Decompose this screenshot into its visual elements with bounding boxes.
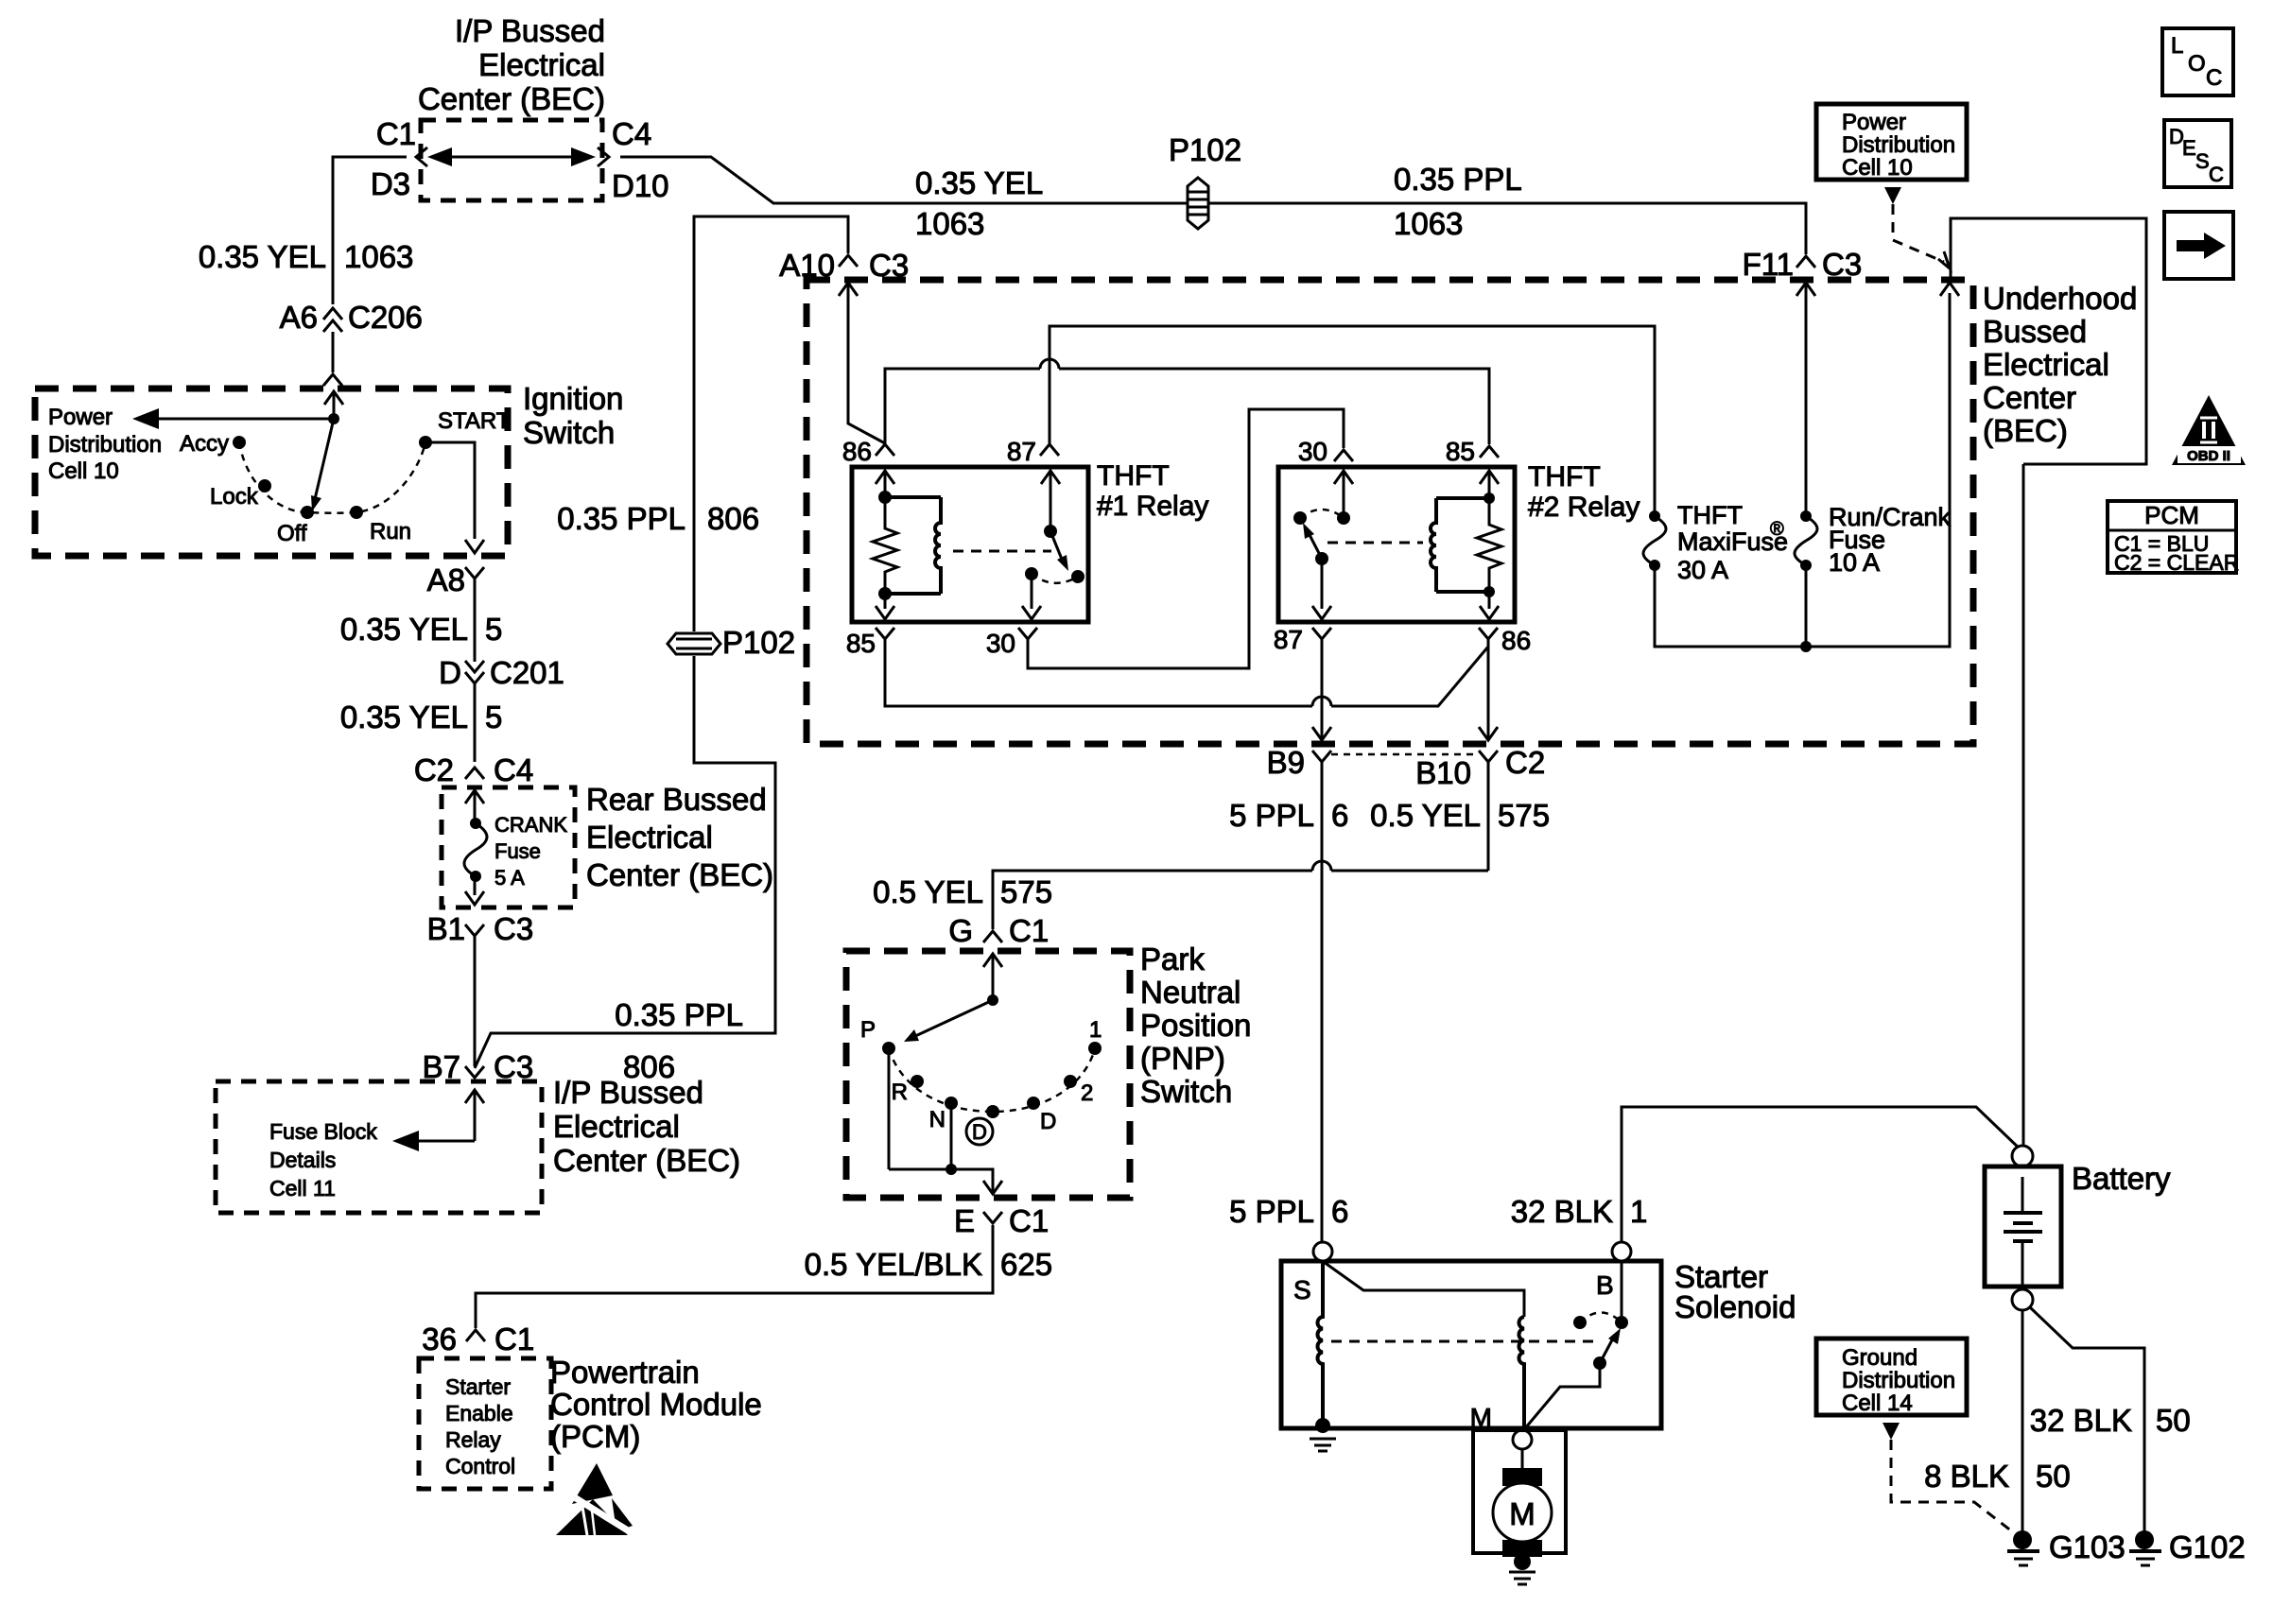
wire 0.35 PPL 806 branch from B7: [475, 656, 775, 1068]
connector A8 chevron: [465, 567, 484, 662]
wire label 32 BLK 50: [2030, 1403, 2191, 1438]
svg-text:575: 575: [1498, 798, 1550, 833]
relay1 switch arm: [1050, 531, 1068, 571]
relay2 bottom rail: [1436, 590, 1489, 594]
svg-text:Cell 11: Cell 11: [269, 1176, 336, 1201]
power distribution pointer triangle: [1884, 187, 1901, 204]
Fuse Block Details Cell 11 text: [269, 1119, 377, 1201]
F11 entry arrow: [1796, 283, 1815, 516]
solenoid B contact: [1615, 1316, 1628, 1329]
starter motor box: [1473, 1430, 1566, 1553]
relay2 pin30 internal arrow: [1334, 471, 1353, 518]
wire from D10 to F11 (0.35 YEL / 0.35 PPL 1063): [620, 157, 1806, 254]
connector B1/C3 chevron: [465, 924, 484, 1066]
ground G102: [2129, 1530, 2161, 1565]
connector B7/C3 chevron: [465, 1066, 484, 1078]
svg-text:Powertrain: Powertrain: [550, 1355, 700, 1390]
svg-text:P102: P102: [1169, 132, 1241, 167]
wire relay1 85 to relay2 86: [885, 639, 1488, 706]
connector G/C1 chevron: [983, 931, 1002, 942]
I/P Bussed Electrical Center box (top): [421, 120, 602, 200]
inline connector P102 (top): [1169, 132, 1241, 229]
connector E/C1 chevron: [983, 1212, 1002, 1223]
I/P Bussed Electrical Center box (lower): [216, 1081, 542, 1213]
I/P Bussed Electrical Center (BEC) title top: [418, 13, 605, 116]
relay1 pin87 internal arrow: [1041, 471, 1060, 531]
PNP switch label: [1140, 942, 1251, 1109]
svg-text:G102: G102: [2169, 1529, 2246, 1564]
motor M circle: [1493, 1483, 1552, 1542]
wire B10 to PNP switch G: [993, 762, 1488, 929]
svg-text:Electrical: Electrical: [478, 47, 605, 82]
entry arrow into lower I/P BEC: [465, 1090, 484, 1141]
svg-text:Control: Control: [445, 1454, 515, 1478]
svg-text:(PNP): (PNP): [1140, 1041, 1225, 1076]
connector C2/C4 chevron: [465, 768, 484, 779]
solenoid hold-in coil: [1518, 1317, 1524, 1431]
svg-text:Distribution: Distribution: [48, 432, 162, 458]
svg-text:6: 6: [1331, 1194, 1348, 1229]
chevron above ignition switch: [323, 374, 342, 386]
svg-text:Fuse: Fuse: [495, 839, 541, 863]
terminal M: [1513, 1430, 1532, 1449]
svg-text:Distribution: Distribution: [1842, 1368, 1955, 1393]
svg-text:Cell 14: Cell 14: [1842, 1391, 1913, 1416]
svg-text:E: E: [954, 1203, 975, 1238]
wire label 0.35 YEL 5: [340, 612, 503, 647]
svg-text:B7: B7: [423, 1049, 460, 1084]
svg-text:0.5 YEL: 0.5 YEL: [873, 874, 983, 909]
motor brushes: [1502, 1468, 1542, 1557]
svg-text:Starter: Starter: [445, 1374, 511, 1399]
contact Lock: [258, 479, 271, 492]
ESD symbol: [556, 1463, 635, 1535]
svg-text:Power: Power: [1842, 110, 1906, 135]
svg-text:C: C: [2209, 163, 2224, 186]
relay1 87 chevron: [1040, 444, 1059, 456]
svg-text:Off: Off: [277, 521, 307, 546]
relay2 pin87 internal arrow: [1312, 559, 1331, 619]
svg-text:575: 575: [1000, 874, 1052, 909]
svg-text:C206: C206: [348, 300, 423, 335]
relay2 contact dashed arc: [1300, 510, 1344, 518]
relay2 30 chevron: [1334, 450, 1353, 461]
svg-text:O: O: [2188, 51, 2206, 77]
Battery: [1985, 1146, 2061, 1310]
PNP output bus: [889, 1169, 993, 1193]
contact N: [945, 1097, 958, 1110]
LOC box: [2162, 28, 2233, 95]
wire battery to G103: [2021, 1310, 2024, 1531]
svg-text:D: D: [1040, 1109, 1056, 1134]
connector C206 double chevron: [323, 308, 342, 332]
svg-text:1: 1: [1630, 1194, 1647, 1229]
Starter Enable Relay Control text: [445, 1374, 515, 1478]
contact D2: [1027, 1097, 1040, 1110]
svg-text:C: C: [2206, 65, 2222, 91]
relay1 86 chevron: [876, 444, 894, 456]
svg-text:Enable: Enable: [445, 1401, 513, 1425]
svg-text:2: 2: [1081, 1080, 1093, 1106]
relay1 switch contact (to 30): [1025, 567, 1038, 580]
wire solenoid B to battery: [1622, 1107, 2022, 1242]
svg-text:Relay: Relay: [445, 1427, 501, 1452]
wire 0.5 YEL/BLK 625 from PNP E to PCM: [476, 1225, 993, 1328]
svg-text:Power: Power: [48, 405, 113, 430]
svg-text:1063: 1063: [1394, 206, 1463, 241]
svg-text:625: 625: [1000, 1247, 1052, 1282]
svg-text:OBD II: OBD II: [2187, 448, 2230, 464]
svg-text:0.35 YEL: 0.35 YEL: [340, 612, 468, 647]
svg-text:1063: 1063: [344, 239, 413, 274]
Underhood BEC dashed box: [807, 280, 1973, 744]
OBD II triangle: [2172, 395, 2246, 465]
wire relay2 87 to B9: [1312, 639, 1331, 740]
wire Run/Crank fuse to F11: [1805, 565, 1808, 647]
svg-text:5 PPL: 5 PPL: [1229, 1194, 1314, 1229]
svg-text:C1: C1: [1009, 913, 1049, 948]
solenoid pull-in coil: [1317, 1261, 1323, 1423]
svg-text:(PCM): (PCM): [550, 1419, 640, 1454]
svg-text:C1: C1: [495, 1322, 534, 1356]
wire label 8 BLK 50: [1924, 1459, 2071, 1494]
svg-text:S: S: [2195, 149, 2210, 173]
svg-text:I/P Bussed: I/P Bussed: [455, 13, 605, 48]
PNP pivot node: [987, 994, 998, 1006]
ground G103: [2007, 1530, 2039, 1565]
motor ground: [1509, 1553, 1536, 1584]
svg-text:Battery: Battery: [2072, 1161, 2171, 1196]
svg-text:30: 30: [986, 629, 1015, 658]
svg-text:THFT: THFT: [1528, 461, 1601, 492]
relay2 coil/resistor bottom node: [1484, 586, 1495, 597]
Run/Crank Fuse 10A: [1795, 503, 1952, 577]
svg-text:0.5 YEL: 0.5 YEL: [1370, 798, 1481, 833]
Underhood BEC label: [1983, 281, 2137, 448]
svg-text:1063: 1063: [915, 206, 984, 241]
PCM label: [550, 1355, 762, 1454]
THFT #1 Relay box: [852, 467, 1088, 622]
svg-text:C2: C2: [414, 752, 454, 787]
svg-text:P102: P102: [722, 625, 795, 660]
contact 1: [1088, 1042, 1102, 1055]
svg-text:G: G: [948, 913, 973, 948]
svg-text:50: 50: [2156, 1403, 2191, 1438]
Power Distribution Cell 10 box (top right): [1816, 104, 1967, 181]
svg-text:30 A: 30 A: [1677, 556, 1728, 584]
relay1 pin30 internal arrow: [1022, 574, 1041, 619]
contact Accy: [233, 436, 246, 449]
svg-text:G103: G103: [2049, 1529, 2126, 1564]
connector B9 chevron: [1312, 751, 1331, 762]
PCM connector legend box: [2108, 501, 2239, 575]
relay2 switch contact (arm rest): [1293, 511, 1307, 525]
svg-text:Center: Center: [1983, 380, 2076, 415]
circled D: [966, 1118, 993, 1145]
relay1 coil/resistor top node: [878, 491, 892, 504]
relay1 contact dashed arc: [1032, 574, 1078, 583]
junction node N output: [946, 1164, 957, 1175]
junction node fuse bus: [1800, 641, 1812, 652]
wire label 0.35 PPL 806 (upper): [557, 501, 759, 536]
solenoid contact dashed arc: [1580, 1313, 1622, 1323]
svg-text:Switch: Switch: [1140, 1074, 1232, 1109]
relay2 87 chevron: [1312, 628, 1331, 639]
svg-text:B10: B10: [1415, 755, 1471, 790]
svg-text:5: 5: [485, 612, 502, 647]
svg-text:32 BLK: 32 BLK: [1511, 1194, 1613, 1229]
contact D (overdrive): [986, 1105, 999, 1118]
svg-text:0.35 YEL: 0.35 YEL: [199, 239, 326, 274]
junction node ignition feed: [328, 413, 339, 424]
relay1 coil/resistor bottom node: [878, 587, 892, 600]
svg-text:Neutral: Neutral: [1140, 975, 1241, 1010]
svg-text:C1: C1: [1009, 1203, 1049, 1238]
motor feed wire: [1521, 1449, 1524, 1471]
connector A10/C3 chevron: [839, 255, 858, 267]
battery feed wire from BEC to battery: [2022, 464, 2025, 1146]
svg-text:N: N: [929, 1107, 946, 1132]
svg-text:85: 85: [1446, 437, 1475, 466]
svg-text:85: 85: [846, 629, 876, 658]
svg-text:50: 50: [2036, 1459, 2071, 1494]
contact P: [882, 1042, 895, 1055]
wire label 0.35 PPL 806 (lower): [615, 997, 743, 1084]
Ignition Switch label: [523, 381, 623, 450]
svg-text:8 BLK: 8 BLK: [1924, 1459, 2009, 1494]
Underhood BEC text frame: [1951, 218, 2146, 464]
svg-text:P: P: [860, 1017, 876, 1043]
relay1 bottom rail: [885, 592, 941, 596]
svg-text:86: 86: [1501, 626, 1531, 655]
svg-text:M: M: [1509, 1496, 1536, 1531]
connector dashed line B9-B10: [1331, 753, 1479, 756]
wire P contact down: [888, 1048, 891, 1169]
PNP contact arc (dashed): [889, 1048, 1095, 1112]
relay2 top rail: [1436, 496, 1489, 500]
svg-text:D3: D3: [371, 166, 410, 201]
CRANK fuse exit arrow: [465, 876, 484, 905]
wire relay2 86 to B10: [1479, 639, 1498, 740]
contact START: [419, 436, 432, 449]
wire label 5 PPL 6: [1229, 798, 1348, 833]
wire label 0.35 YEL 1063 (top): [915, 165, 1043, 241]
svg-text:I/P Bussed: I/P Bussed: [553, 1075, 703, 1110]
solenoid actuation dashed link: [1331, 1340, 1598, 1343]
connector C201 double chevron: [465, 661, 484, 762]
svg-text:Details: Details: [269, 1148, 336, 1172]
solenoid floating contact: [1573, 1316, 1587, 1329]
svg-text:30: 30: [1298, 437, 1327, 466]
contact 2: [1064, 1075, 1077, 1088]
svg-text:1: 1: [1089, 1017, 1102, 1043]
contact Run: [350, 506, 363, 519]
svg-text:86: 86: [842, 437, 872, 466]
solenoid arm to M terminal: [1525, 1363, 1600, 1428]
arrow to fuse block details: [392, 1131, 475, 1151]
svg-text:C3: C3: [494, 911, 533, 946]
relay2 pin86 internal arrow: [1480, 592, 1499, 619]
relay1 pin85 internal arrow: [876, 594, 894, 619]
svg-text:C201: C201: [490, 655, 564, 690]
PNP exit arrow: [983, 1181, 1002, 1194]
wire label 0.35 PPL 1063 (top right): [1394, 162, 1522, 241]
terminal S: [1313, 1242, 1332, 1261]
svg-text:C4: C4: [494, 752, 533, 787]
power feed entry arrow (from Power Distribution): [1940, 283, 1959, 296]
wire battery to G102: [2030, 1307, 2144, 1533]
relay2 coil: [1431, 498, 1436, 592]
wire relay1 30 to relay2 30: [1028, 409, 1344, 668]
svg-text:C4: C4: [612, 116, 651, 151]
svg-text:36: 36: [422, 1322, 457, 1356]
solenoid B contact wire: [1621, 1261, 1623, 1316]
relay1 coil: [935, 497, 941, 594]
svg-text:0.35 YEL: 0.35 YEL: [340, 700, 468, 734]
svg-text:0.5 YEL/BLK: 0.5 YEL/BLK: [805, 1247, 982, 1282]
contact Off: [301, 506, 314, 519]
terminal B: [1612, 1242, 1631, 1261]
chevron power feed: [1938, 251, 1950, 268]
wire PPL 806 riser to A10: [694, 216, 848, 631]
relay2 86 chevron: [1479, 628, 1498, 639]
THFT #2 Relay box: [1278, 467, 1515, 622]
connector B10 chevron: [1479, 751, 1498, 762]
ignition selector arm: [311, 419, 334, 511]
wire relay1 86 riser to relay2 85 (coil bus): [885, 359, 1489, 444]
relay1 resistor: [873, 497, 897, 594]
svg-text:Solenoid: Solenoid: [1674, 1289, 1796, 1324]
svg-text:D: D: [972, 1120, 987, 1144]
svg-text:R: R: [892, 1080, 908, 1105]
svg-text:Switch: Switch: [523, 415, 615, 450]
svg-text:Ground: Ground: [1842, 1345, 1917, 1371]
ignition feed entry arrow: [324, 391, 343, 419]
svg-text:C2: C2: [1505, 745, 1545, 780]
wire label 0.35 YEL 5 (second): [340, 700, 503, 734]
fuse bottom bus: [1655, 293, 1950, 647]
svg-text:0.35 PPL: 0.35 PPL: [615, 997, 743, 1032]
svg-text:A6: A6: [280, 300, 318, 335]
svg-text:Bussed: Bussed: [1983, 314, 2087, 349]
svg-text:0.35 YEL: 0.35 YEL: [915, 165, 1043, 200]
connector F11/C3 chevron: [1796, 256, 1815, 268]
wire label 32 BLK 1: [1511, 1194, 1648, 1229]
svg-text:A8: A8: [427, 562, 465, 597]
Starter Solenoid label: [1674, 1259, 1796, 1324]
I/P BEC lower label: [553, 1075, 740, 1178]
connector 36/C1 chevron: [466, 1330, 485, 1341]
PNP selector arm: [904, 1000, 993, 1042]
solenoid coil ground: [1310, 1418, 1336, 1451]
relay1 30 chevron: [1018, 628, 1037, 639]
relay2 pin85 internal arrow: [1480, 471, 1499, 498]
arrow to power distribution: [132, 408, 334, 429]
svg-text:M: M: [1470, 1403, 1492, 1432]
Ground Distribution Cell 14 box: [1816, 1339, 1967, 1416]
svg-text:F11: F11: [1743, 247, 1794, 282]
connector chevron C1/D3: [416, 147, 427, 166]
solenoid switch arm: [1600, 1328, 1621, 1363]
svg-text:C3: C3: [494, 1049, 533, 1084]
relay1 pin86 internal arrow: [876, 471, 894, 497]
svg-text:Ignition: Ignition: [523, 381, 623, 416]
svg-text:(BEC): (BEC): [1983, 413, 2068, 448]
svg-text:5 A: 5 A: [495, 866, 525, 890]
svg-text:THFT: THFT: [1097, 460, 1170, 492]
bus arrow inside I/P BEC: [427, 147, 596, 166]
svg-text:Cell 10: Cell 10: [48, 458, 119, 484]
contact R: [911, 1075, 924, 1088]
svg-text:Center (BEC): Center (BEC): [418, 81, 605, 116]
svg-text:E: E: [2182, 136, 2196, 160]
svg-text:Accy: Accy: [180, 431, 229, 457]
wire B9 to starter solenoid S: [1321, 762, 1324, 1242]
svg-text:Distribution: Distribution: [1842, 132, 1955, 158]
svg-text:Electrical: Electrical: [586, 820, 713, 855]
relay1 switch pivot: [1044, 525, 1057, 538]
A10 entry arrow and wire to relay1 pin 86: [839, 283, 885, 443]
relay2 85 chevron: [1480, 446, 1499, 458]
svg-text:C3: C3: [1822, 247, 1862, 282]
svg-text:5: 5: [485, 700, 502, 734]
wire label 5 PPL 6 (at solenoid): [1229, 1194, 1348, 1229]
relay2 switch contact (to 30): [1337, 511, 1350, 525]
svg-text:Park: Park: [1140, 942, 1205, 976]
relay1 actuation dashed link: [953, 550, 1051, 553]
svg-text:Electrical: Electrical: [1983, 347, 2109, 382]
relay2 switch arm: [1303, 523, 1322, 559]
Park Neutral Position switch box: [846, 951, 1130, 1198]
wire C206 to ignition switch: [332, 332, 335, 372]
connector chevron C4/D10: [598, 147, 609, 166]
svg-text:Fuse Block: Fuse Block: [269, 1119, 377, 1144]
Starter Solenoid box: [1281, 1261, 1661, 1428]
Rear BEC label: [586, 782, 773, 892]
relay1 top rail: [885, 495, 941, 499]
solenoid arm pivot: [1593, 1356, 1606, 1370]
svg-text:D10: D10: [612, 168, 669, 203]
Power Distribution Cell 10 text (in ignition box): [48, 405, 162, 484]
svg-text:Rear Bussed: Rear Bussed: [586, 782, 767, 817]
relay2 switch pivot: [1315, 552, 1328, 565]
wire relay1 87 to THFT MaxiFuse: [1050, 326, 1655, 516]
svg-text:B: B: [1596, 1270, 1614, 1300]
svg-text:32 BLK: 32 BLK: [2030, 1403, 2132, 1438]
svg-text:L: L: [2171, 33, 2183, 59]
forward arrow box: [2164, 212, 2233, 279]
relay1 85 chevron: [876, 628, 894, 639]
wire label 0.5 YEL 575: [1370, 798, 1550, 833]
inline connector P102 (on PPL 806 wire): [668, 625, 795, 660]
svg-text:B9: B9: [1267, 745, 1305, 780]
Rear Bussed Electrical Center box: [442, 787, 575, 907]
svg-text:Electrical: Electrical: [553, 1109, 680, 1144]
svg-text:87: 87: [1007, 437, 1036, 466]
wire START to A8: [425, 442, 484, 553]
svg-text:0.35 PPL: 0.35 PPL: [557, 501, 685, 536]
Ignition Switch box: [35, 389, 508, 556]
relay2 resistor: [1477, 498, 1501, 592]
dashed link ground distribution to G103: [1891, 1440, 2017, 1535]
THFT #1 Relay label: [1097, 460, 1208, 522]
svg-text:S: S: [1293, 1275, 1311, 1304]
wire label 0.5 YEL 575 (at PNP): [873, 874, 1052, 909]
svg-text:0.35 PPL: 0.35 PPL: [1394, 162, 1522, 197]
svg-text:Cell 10: Cell 10: [1842, 155, 1913, 181]
svg-text:Underhood: Underhood: [1983, 281, 2137, 316]
relay2 coil/resistor top node: [1484, 492, 1495, 504]
